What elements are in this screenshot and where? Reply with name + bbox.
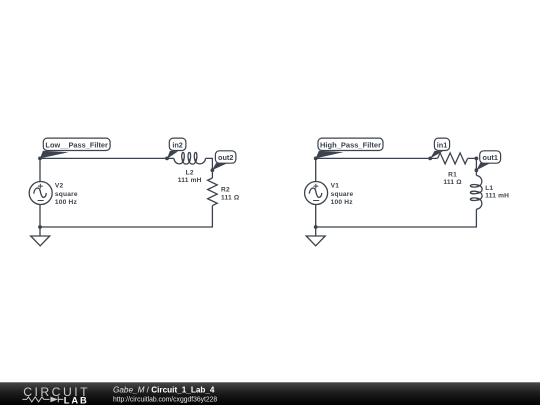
- svg-text:in1: in1: [437, 141, 448, 150]
- svg-text:http://circuitlab.com/cxggdf36: http://circuitlab.com/cxggdf36yt228: [113, 395, 217, 404]
- svg-text:R2: R2: [221, 186, 230, 193]
- svg-text:V2: V2: [55, 183, 64, 190]
- svg-text:L1: L1: [485, 185, 493, 192]
- svg-text:100 Hz: 100 Hz: [55, 199, 78, 206]
- svg-text:Gabe_M / Circuit_1_Lab_4: Gabe_M / Circuit_1_Lab_4: [113, 386, 215, 395]
- svg-text:100 Hz: 100 Hz: [331, 199, 354, 206]
- svg-text:L2: L2: [186, 170, 194, 177]
- svg-text:111 Ω: 111 Ω: [221, 195, 240, 202]
- svg-text:square: square: [55, 191, 78, 198]
- svg-text:111 mH: 111 mH: [178, 177, 202, 184]
- svg-text:R1: R1: [448, 171, 457, 178]
- svg-text:out2: out2: [218, 153, 233, 162]
- svg-text:LAB: LAB: [64, 396, 89, 405]
- svg-text:High_Pass_Filter: High_Pass_Filter: [320, 141, 381, 150]
- svg-text:square: square: [331, 191, 354, 198]
- svg-text:Low__Pass_Filter: Low__Pass_Filter: [45, 141, 108, 150]
- svg-text:111 mH: 111 mH: [485, 193, 509, 200]
- svg-text:111 Ω: 111 Ω: [443, 179, 462, 186]
- svg-text:in2: in2: [172, 141, 183, 150]
- svg-text:out1: out1: [482, 153, 497, 162]
- svg-text:V1: V1: [331, 183, 340, 190]
